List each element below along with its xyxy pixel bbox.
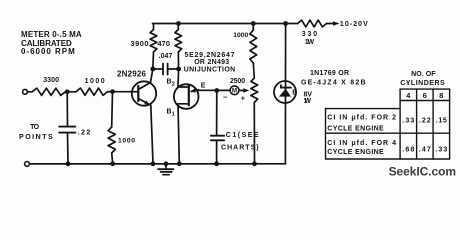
svg-text:3300: 3300 xyxy=(43,77,59,84)
svg-text:1: 1 xyxy=(172,112,175,118)
svg-text:6: 6 xyxy=(423,91,427,100)
svg-text:1N1769 OR: 1N1769 OR xyxy=(310,70,349,77)
svg-text:2: 2 xyxy=(172,82,175,88)
svg-text:.68: .68 xyxy=(402,146,414,153)
svg-text:1000: 1000 xyxy=(85,78,105,85)
svg-text:−: − xyxy=(223,93,228,102)
svg-text:.33: .33 xyxy=(435,146,447,153)
svg-text:CYLINDERS: CYLINDERS xyxy=(400,80,445,87)
svg-text:C1(SEE: C1(SEE xyxy=(226,132,259,139)
svg-text:8: 8 xyxy=(439,91,443,100)
svg-text:.15: .15 xyxy=(436,117,447,124)
svg-text:E: E xyxy=(201,82,206,89)
svg-text:NO. OF: NO. OF xyxy=(411,71,436,78)
svg-text:B: B xyxy=(167,109,172,116)
svg-text:3900: 3900 xyxy=(131,39,149,48)
svg-text:0-6000 RPM: 0-6000 RPM xyxy=(21,47,75,56)
svg-text:2N2926: 2N2926 xyxy=(117,70,146,79)
svg-text:SeekIC.com: SeekIC.com xyxy=(389,164,457,178)
svg-text:TO: TO xyxy=(30,124,40,131)
svg-text:1000: 1000 xyxy=(118,138,135,145)
svg-text:CYCLE ENGINE: CYCLE ENGINE xyxy=(327,125,384,132)
svg-text:+: + xyxy=(241,93,246,102)
svg-text:B: B xyxy=(167,79,172,86)
svg-text:1W: 1W xyxy=(304,98,312,105)
svg-text:470: 470 xyxy=(157,39,170,48)
svg-text:330: 330 xyxy=(302,31,318,38)
svg-text:CHARTS): CHARTS) xyxy=(221,145,259,152)
svg-text:5E29,2N2647: 5E29,2N2647 xyxy=(185,52,235,59)
svg-text:CI IN μfd. FOR 4: CI IN μfd. FOR 4 xyxy=(327,140,396,147)
svg-text:.33: .33 xyxy=(402,117,414,124)
svg-text:1000: 1000 xyxy=(233,32,248,39)
svg-text:OR 2N493: OR 2N493 xyxy=(194,59,229,66)
svg-text:METER 0-.5 MA: METER 0-.5 MA xyxy=(21,30,82,39)
svg-text:UNIJUNCTION: UNIJUNCTION xyxy=(184,66,236,73)
svg-text:.47: .47 xyxy=(419,146,431,153)
svg-text:10-20V: 10-20V xyxy=(340,21,368,28)
svg-text:M: M xyxy=(232,88,237,95)
svg-text:B: B xyxy=(292,89,297,96)
svg-text:2500: 2500 xyxy=(230,78,245,85)
svg-text:.22: .22 xyxy=(419,117,431,124)
svg-text:GE-4JZ4 X 82B: GE-4JZ4 X 82B xyxy=(301,80,366,87)
svg-text:.047: .047 xyxy=(159,53,173,60)
svg-text:CYCLE ENGINE: CYCLE ENGINE xyxy=(327,149,384,156)
svg-text:1W: 1W xyxy=(305,39,315,46)
svg-text:.22: .22 xyxy=(78,130,91,137)
svg-text:CI IN μfd. FOR 2: CI IN μfd. FOR 2 xyxy=(327,115,396,122)
